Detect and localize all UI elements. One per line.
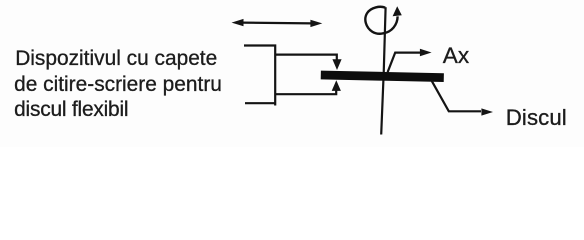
bracket: head assembly [244,46,275,106]
svg-text:discul flexibil: discul flexibil [14,98,128,121]
svg-text:Ax: Ax [443,43,470,68]
wire: double-headed horizontal motion arrow [232,19,323,27]
svg-text:de citire-scriere pentru: de citire-scriere pentru [14,73,222,96]
wire: Discul leader with arrow [431,80,481,111]
svg-text:Dispozitivul cu capete: Dispozitivul cu capete [15,47,217,70]
wire: upper head arm with down arrow [275,55,337,61]
svg-text:Discul: Discul [506,105,567,130]
disk: thick horizontal bar [321,75,444,78]
wire: Ax leader with arrow [388,53,421,73]
wire: spindle axis vertical line [381,7,385,134]
wire: lower head arm with up arrow [275,89,336,94]
rotation symbol: circular arrow around spindle [365,7,397,34]
